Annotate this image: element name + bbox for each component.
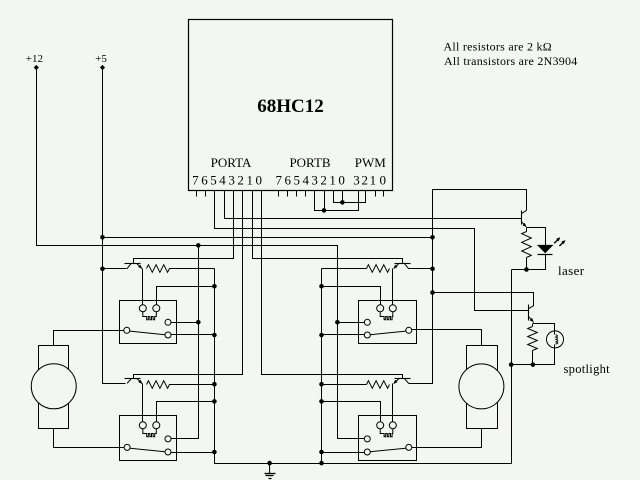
- svg-text:PWM: PWM: [355, 155, 387, 170]
- svg-text:4: 4: [302, 172, 309, 187]
- transistor Q2 collector diagonal: [127, 379, 131, 384]
- pin stub PA6: [205, 191, 207, 197]
- wire PB0 down to PB1-PWM2 net: [342, 191, 344, 203]
- transistor Q4 bar: [395, 378, 411, 380]
- junction resistor R6 bottom: [531, 362, 536, 367]
- wire relay K2 coil return: [157, 402, 215, 422]
- svg-text:0: 0: [256, 172, 263, 187]
- pin stub PB6: [287, 191, 289, 197]
- transistor Q3 bar: [395, 263, 411, 265]
- svg-text:All resistors are 2 kΩ: All resistors are 2 kΩ: [444, 40, 552, 54]
- wire PA3 to transistor Q1 base: [134, 191, 234, 264]
- transistor Q5 collector diagonal: [521, 210, 526, 213]
- junction left bus coil K1 tie: [212, 284, 217, 289]
- svg-text:PORTB: PORTB: [289, 155, 330, 170]
- wire +12 rail down and across to right relay bank: [37, 68, 365, 439]
- motor M1 body: [39, 346, 69, 429]
- relay K3 coil terminal left: [377, 305, 384, 312]
- wire transistor Q3 collector lead: [409, 268, 433, 270]
- wire PB1 to PWM2 net: [334, 191, 366, 203]
- junction right bus resistor R4: [319, 382, 324, 387]
- relay K3 common contact: [406, 327, 412, 333]
- relay K1 upper contact: [165, 319, 171, 325]
- wire right motor top lead to relay K3 common: [412, 330, 482, 346]
- transistor Q4 emitter diagonal: [394, 379, 399, 384]
- svg-text:laser: laser: [558, 263, 585, 278]
- svg-text:spotlight: spotlight: [564, 362, 611, 376]
- wire PA1 to transistor Q3 base: [253, 191, 403, 264]
- relay K1 switch arm: [130, 331, 165, 335]
- svg-text:+12: +12: [26, 53, 43, 65]
- pin stub PA7: [196, 191, 198, 197]
- junction right bus relay K4 lower contact: [319, 450, 324, 455]
- junction +12 rail to left relay bus: [196, 243, 201, 248]
- wire +5 rail down to transistor Q2 collector: [103, 68, 126, 384]
- transistor Q6 collector diagonal: [528, 305, 534, 308]
- wire PA0 to transistor Q4 base: [262, 191, 403, 379]
- wire left motor top lead to relay K1 common: [54, 331, 124, 346]
- relay K2 coil terminal left: [139, 422, 146, 429]
- svg-text:1: 1: [370, 172, 377, 187]
- wire Q4 emitter to relay K4 coil: [392, 384, 394, 422]
- relay K1 coil terminal left: [139, 305, 146, 312]
- transistor Q6 bar: [528, 305, 530, 321]
- relay K2 box: [120, 416, 177, 461]
- motor M1: [31, 364, 76, 409]
- relay K2 coil: [143, 429, 157, 437]
- wire +5 horizontal feed to right bus: [103, 237, 433, 239]
- svg-text:0: 0: [338, 172, 345, 187]
- relay K2 coil terminal right: [153, 422, 160, 429]
- wire cathode bus down to bottom wire: [511, 270, 513, 464]
- wire relay K1 upper contact lead: [171, 322, 199, 324]
- junction left bus coil K2 tie: [212, 399, 217, 404]
- svg-text:6: 6: [201, 172, 208, 187]
- wire relay K3 coil return: [322, 287, 381, 305]
- relay K3 switch arm: [370, 331, 406, 335]
- relay K3 coil: [380, 312, 393, 320]
- svg-text:PORTA: PORTA: [211, 155, 252, 170]
- wire relay K2 lower contact lead: [171, 452, 215, 454]
- wire right common bus down from resistor R3: [321, 269, 323, 464]
- relay K2 switch arm: [130, 448, 165, 452]
- junction +5 rail at transistor Q1 collector: [100, 267, 105, 272]
- svg-text:+5: +5: [95, 53, 107, 65]
- svg-text:3: 3: [228, 172, 235, 187]
- junction right bus on bottom wire: [319, 461, 324, 466]
- svg-text:4: 4: [219, 172, 226, 187]
- transistor Q4 collector diagonal: [404, 379, 408, 384]
- svg-text:1: 1: [329, 172, 336, 187]
- resistor R3: [322, 265, 390, 273]
- pin stub PB5: [296, 191, 298, 197]
- wire relay K4 lower contact lead: [322, 452, 365, 454]
- transistor Q2 bar: [125, 378, 141, 380]
- wire Q6 emitter node to lamp: [534, 323, 555, 335]
- wire relay K3 lower contact lead: [322, 334, 365, 336]
- relay K4 coil: [380, 429, 393, 437]
- svg-text:2: 2: [362, 172, 369, 187]
- IC U1 68HC12 box: [189, 20, 393, 191]
- junction +5 rail to horizontal +5 feed: [100, 235, 105, 240]
- wire PA2 to transistor Q2 base: [134, 191, 243, 379]
- wire Q1 emitter to relay K1 coil: [142, 269, 144, 305]
- relay K4 upper contact: [364, 436, 370, 442]
- svg-text:3: 3: [311, 172, 318, 187]
- ground: [269, 463, 271, 473]
- wire left common bus down from resistor R1: [215, 269, 512, 464]
- relay K4 common contact: [406, 444, 412, 450]
- svg-text:6: 6: [285, 172, 292, 187]
- relay K3 coil terminal right: [389, 305, 396, 312]
- node +12 terminal: [34, 65, 39, 70]
- junction +12 left branch at relay K1 upper contact: [196, 320, 201, 325]
- relay K1 coil: [143, 312, 157, 320]
- transistor Q5 emitter diagonal: [521, 221, 526, 226]
- relay K2 lower contact: [165, 449, 171, 455]
- relay K3 upper contact: [364, 319, 370, 325]
- wire +12 left branch down to relay K2 upper contact: [171, 246, 199, 439]
- pin stub PWM1: [375, 191, 377, 197]
- wire PA5 to spotlight transistor Q6 base: [215, 191, 529, 311]
- wire spotlight transistor Q6 collector feed: [433, 293, 534, 306]
- wire PA4 to laser transistor Q5 base: [225, 191, 522, 219]
- transistor Q1 emitter diagonal: [137, 263, 142, 268]
- junction ground tap on bottom wire: [267, 461, 272, 466]
- transistor Q1 bar: [125, 263, 141, 265]
- wire Q2 emitter to relay K2 coil: [142, 384, 144, 422]
- pin stub PWM0: [383, 191, 385, 197]
- laser diode D1: [538, 245, 553, 252]
- resistor R4: [322, 381, 390, 389]
- junction left bus relay K1 lower contact: [212, 333, 217, 338]
- wire Q5 emitter node to LED anode: [527, 228, 546, 246]
- junction PB2 on PB3-PWM3 net: [322, 208, 327, 213]
- wire D1 cathode down and left: [512, 255, 546, 270]
- junction left bus resistor R2: [212, 382, 217, 387]
- wire lamp bottom lead: [512, 345, 555, 365]
- node +5 terminal: [100, 65, 105, 70]
- transistor Q3 collector diagonal: [404, 263, 408, 268]
- wire +5 right bus with top feed to laser collector: [409, 190, 527, 384]
- wire PB3 to PWM3 net: [315, 191, 359, 211]
- junction right bus relay K3 lower contact: [319, 333, 324, 338]
- resistor R5 zigzag: [522, 232, 532, 270]
- resistor R1: [147, 265, 215, 273]
- junction +12 right branch at relay K3 upper contact: [335, 320, 340, 325]
- svg-text:68HC12: 68HC12: [257, 96, 324, 117]
- transistor Q2 emitter diagonal: [137, 379, 142, 384]
- svg-text:7: 7: [192, 172, 199, 187]
- svg-text:5: 5: [210, 172, 217, 187]
- resistor R6 zigzag: [528, 327, 538, 365]
- relay K4 box: [359, 416, 417, 461]
- svg-text:7: 7: [276, 172, 283, 187]
- svg-text:0: 0: [380, 172, 387, 187]
- svg-text:All transistors are 2N3904: All transistors are 2N3904: [444, 54, 577, 68]
- relay K4 coil terminal right: [389, 422, 396, 429]
- svg-text:1: 1: [246, 172, 253, 187]
- laser light arrow 2: [559, 242, 564, 247]
- junction cathode bus at lamp return: [509, 362, 514, 367]
- junction right bus at spotlight collector feed: [430, 290, 435, 295]
- resistor R5: [526, 228, 528, 232]
- pin stub PB7: [278, 191, 280, 197]
- relay K1 common contact: [124, 327, 130, 333]
- junction +5 feed at right bus: [430, 235, 435, 240]
- wire relay K1 coil return: [157, 287, 215, 305]
- svg-text:2: 2: [237, 172, 244, 187]
- relay K4 coil terminal left: [377, 422, 384, 429]
- transistor Q6 emitter diagonal: [528, 316, 533, 321]
- relay K2 common contact: [124, 444, 130, 450]
- svg-text:3: 3: [353, 172, 360, 187]
- laser diode D1 cathode bar: [538, 254, 553, 256]
- junction right bus coil K4 tie: [319, 399, 324, 404]
- wire transistor Q1 collector lead: [103, 268, 127, 270]
- junction PB0 on PB1-PWM2 net: [340, 200, 345, 205]
- resistor R6 lead: [532, 324, 534, 327]
- relay K3 lower contact: [364, 332, 370, 338]
- relay K4 switch arm: [370, 448, 406, 452]
- relay K2 upper contact: [165, 436, 171, 442]
- wire right motor bottom lead to relay K4 common: [412, 429, 482, 448]
- motor M2: [459, 364, 504, 409]
- junction right bus coil K3 tie: [319, 284, 324, 289]
- junction right bus at transistor Q3 collector: [430, 267, 435, 272]
- wire relay K3 upper contact lead: [338, 322, 365, 324]
- pin stub PB4: [305, 191, 307, 197]
- svg-text:5: 5: [293, 172, 300, 187]
- motor M2 body: [467, 346, 498, 429]
- lamp L1 filament: [556, 335, 558, 345]
- transistor Q3 emitter diagonal: [394, 263, 399, 268]
- resistor R2: [147, 381, 215, 389]
- relay K4 lower contact: [364, 449, 370, 455]
- transistor Q5 bar: [521, 211, 523, 225]
- relay K1 coil terminal right: [153, 305, 160, 312]
- relay K3 box: [359, 301, 417, 344]
- relay K1 lower contact: [165, 332, 171, 338]
- wire relay K4 coil return: [322, 402, 381, 422]
- laser light arrow 1: [554, 239, 559, 244]
- relay K1 box: [120, 301, 177, 344]
- wire Q3 emitter to relay K3 coil: [392, 269, 394, 305]
- junction resistor R5 and D1 cathode: [524, 267, 529, 272]
- transistor Q1 collector diagonal: [127, 263, 131, 268]
- wire relay K1 lower contact lead: [171, 334, 215, 336]
- wire PB2 down to PB3-PWM3 net: [324, 191, 326, 211]
- svg-text:2: 2: [320, 172, 327, 187]
- junction left bus relay K2 lower contact: [212, 450, 217, 455]
- lamp L1 spotlight bulb: [547, 331, 564, 348]
- wire left motor bottom lead to relay K2 common: [54, 429, 125, 448]
